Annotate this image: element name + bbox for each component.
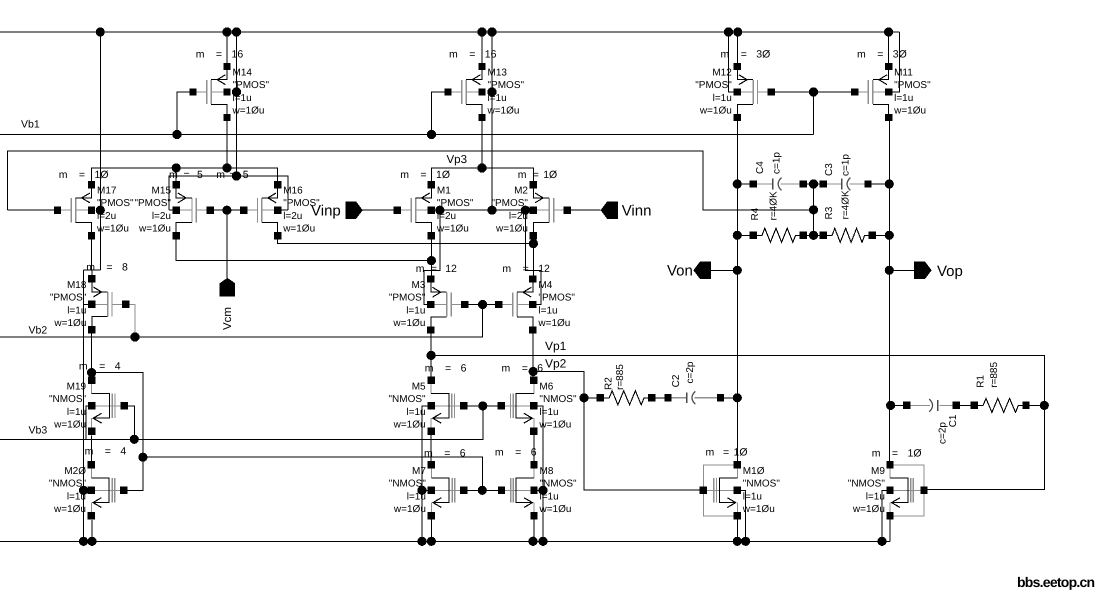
svg-text:m: m xyxy=(721,49,730,61)
svg-text:=: = xyxy=(444,448,450,460)
wire M6 source down xyxy=(533,431,535,464)
label M3 values xyxy=(389,280,426,329)
svg-text:l=2u: l=2u xyxy=(152,211,171,222)
node bulk junction M2 xyxy=(521,206,530,215)
transistor M4 xyxy=(495,275,536,333)
svg-text:1Ø: 1Ø xyxy=(543,169,557,181)
svg-text:w=1Øu: w=1Øu xyxy=(53,419,86,430)
svg-text:M3: M3 xyxy=(411,280,425,291)
wire M12 drain to vdd xyxy=(736,32,738,67)
svg-text:"PMOS": "PMOS" xyxy=(389,293,426,304)
svg-text:3Ø: 3Ø xyxy=(756,49,770,61)
svg-text:l=1u: l=1u xyxy=(406,306,425,317)
svg-text:=: = xyxy=(184,169,190,181)
svg-text:m: m xyxy=(416,263,425,275)
svg-text:"NMOS": "NMOS" xyxy=(389,478,427,489)
node R4 junction xyxy=(733,231,742,240)
capacitor C3 xyxy=(820,178,872,191)
node M1 drain junction xyxy=(427,256,436,265)
node Vb3 junction x134 xyxy=(130,435,139,444)
svg-text:w=1Øu: w=1Øu xyxy=(392,318,425,329)
svg-text:=: = xyxy=(79,169,85,181)
wire vdd drop to M17 bulk xyxy=(99,32,101,270)
wire M16 bulk stub xyxy=(278,209,288,211)
wire M4 bulk tie xyxy=(525,210,541,304)
wire M15 bulk stub xyxy=(169,209,176,211)
svg-text:M11: M11 xyxy=(894,68,913,79)
node vdd rail junction x728 xyxy=(724,27,733,36)
wire M17 source down to chain xyxy=(91,239,93,270)
svg-text:m: m xyxy=(706,447,715,459)
node R3 junction xyxy=(885,231,894,240)
node Vp2 junction xyxy=(529,367,538,376)
svg-text:=: = xyxy=(105,446,111,458)
svg-text:m: m xyxy=(424,448,433,460)
node R1C1 junction xyxy=(886,401,895,410)
svg-text:12: 12 xyxy=(445,263,457,275)
wire M3 bulk tie xyxy=(424,210,440,304)
svg-text:M16: M16 xyxy=(283,186,303,197)
node mid junction top xyxy=(809,179,818,188)
transistor M9 xyxy=(886,461,927,519)
svg-text:l=1u: l=1u xyxy=(488,93,507,104)
node M7 M8 gate junction xyxy=(478,486,487,495)
svg-text:R3: R3 xyxy=(824,206,835,219)
wire M15 source line xyxy=(176,239,431,260)
wire M12 bulk riser xyxy=(729,32,738,92)
svg-text:l=2u: l=2u xyxy=(97,211,116,222)
wire M20 source to gnd xyxy=(91,520,93,542)
svg-text:=: = xyxy=(877,49,883,61)
label M13 values xyxy=(487,68,525,117)
svg-text:r=4ØK: r=4ØK xyxy=(768,191,779,221)
node vdd rail junction x888 xyxy=(884,27,893,36)
label M12 values xyxy=(695,68,732,117)
label M11 values xyxy=(893,68,931,117)
svg-text:w=1Øu: w=1Øu xyxy=(742,504,775,515)
transistor M20 xyxy=(88,461,128,519)
wire M19 source to M20 drain xyxy=(91,435,93,464)
svg-text:"NMOS": "NMOS" xyxy=(388,394,426,405)
transistor M15 xyxy=(173,181,214,239)
wire Vb3 horizontal xyxy=(0,406,483,439)
resistor R3 xyxy=(820,228,876,242)
node tail junction xyxy=(477,163,486,172)
svg-text:w=1Øu: w=1Øu xyxy=(852,504,885,515)
svg-text:w=1Øu: w=1Øu xyxy=(539,504,572,515)
svg-text:w=1Øu: w=1Øu xyxy=(893,106,926,117)
wire R1 to Vp1 leg xyxy=(1026,404,1044,406)
svg-text:m: m xyxy=(216,169,225,181)
svg-text:8: 8 xyxy=(122,262,128,274)
svg-text:Von: Von xyxy=(667,263,693,280)
transistor M3 xyxy=(427,275,468,333)
wire M3 source down xyxy=(430,330,432,380)
svg-text:m: m xyxy=(400,169,409,181)
svg-text:=: = xyxy=(216,49,222,61)
transistor M16 xyxy=(240,181,281,239)
svg-text:m: m xyxy=(59,169,68,181)
node Vp1 junction xyxy=(427,351,436,360)
svg-text:M18: M18 xyxy=(67,280,87,291)
wire M12 M11 gate link xyxy=(771,91,855,93)
svg-text:=: = xyxy=(420,169,426,181)
svg-text:M17: M17 xyxy=(97,186,117,197)
svg-text:=: = xyxy=(741,49,747,61)
svg-text:"NMOS": "NMOS" xyxy=(539,394,577,405)
node M14 bulk junction xyxy=(232,87,241,96)
svg-text:"PMOS": "PMOS" xyxy=(50,292,87,303)
node M13 bulk junction xyxy=(487,87,496,96)
wire Von stub xyxy=(711,269,738,271)
wire M5 bulk tie left xyxy=(422,406,431,541)
svg-text:c=2p: c=2p xyxy=(937,422,948,444)
svg-text:M15: M15 xyxy=(152,186,172,197)
svg-text:Vp2: Vp2 xyxy=(545,356,567,370)
svg-text:m: m xyxy=(196,49,205,61)
label M17 values xyxy=(96,186,134,235)
svg-text:m: m xyxy=(857,49,866,61)
svg-text:Vcm: Vcm xyxy=(222,307,234,330)
svg-text:=: = xyxy=(469,49,475,61)
wire Vb2 horizontal xyxy=(0,306,483,337)
svg-text:"PMOS": "PMOS" xyxy=(233,80,270,91)
svg-text:M2: M2 xyxy=(514,186,528,197)
svg-text:6: 6 xyxy=(531,446,537,458)
svg-text:w=1Øu: w=1Øu xyxy=(436,224,469,235)
svg-text:w=1Øu: w=1Øu xyxy=(96,224,129,235)
transistor M18 xyxy=(88,275,129,333)
wire M15 M16 gate link xyxy=(210,209,244,211)
svg-text:m: m xyxy=(449,49,458,61)
wire R2 C2 link xyxy=(652,397,668,399)
wire M17 source up to Y1 xyxy=(92,168,177,181)
svg-text:C3: C3 xyxy=(824,163,835,176)
label M5 values xyxy=(388,381,426,430)
wire M4 source down xyxy=(532,330,534,380)
wire R4 left xyxy=(737,234,753,236)
wire M18 drain to M19 drain xyxy=(91,334,93,381)
svg-text:M1: M1 xyxy=(437,186,451,197)
svg-text:m: m xyxy=(85,446,94,458)
svg-text:6: 6 xyxy=(460,448,466,460)
svg-text:m: m xyxy=(502,362,511,374)
svg-text:M14: M14 xyxy=(233,68,253,79)
label M14 values xyxy=(232,68,270,117)
node M5 M6 gate junction xyxy=(478,401,487,410)
svg-text:m: m xyxy=(518,169,527,181)
svg-text:w=1Øu: w=1Øu xyxy=(495,224,528,235)
svg-text:l=1u: l=1u xyxy=(539,407,558,418)
wire C3 right xyxy=(868,183,889,185)
wire M13 source to pair sources xyxy=(481,118,483,169)
node Y1 junction M15 xyxy=(172,163,181,172)
node Von junction xyxy=(733,266,742,275)
svg-text:Vinn: Vinn xyxy=(622,203,652,220)
transistor M6 xyxy=(498,377,538,435)
svg-text:Vinp: Vinp xyxy=(311,203,341,220)
svg-text:"NMOS": "NMOS" xyxy=(540,478,578,489)
wire M11 drain to vdd xyxy=(888,32,890,67)
label M9 values xyxy=(848,466,886,515)
resistor R2 xyxy=(597,391,656,405)
svg-text:r=885: r=885 xyxy=(989,362,1000,388)
wire chain into M18 drain xyxy=(91,270,93,278)
wire M11 bulk feed xyxy=(889,32,900,92)
transistor M17 xyxy=(54,181,95,239)
wire M9 bulk to gnd xyxy=(882,490,890,541)
wire Vinn to M2 gate xyxy=(567,209,600,211)
svg-text:l=1u: l=1u xyxy=(67,491,86,502)
svg-text:12: 12 xyxy=(538,263,550,275)
svg-text:"PMOS": "PMOS" xyxy=(97,198,134,209)
node Vcm gate junction xyxy=(222,206,231,215)
node gnd rail junction x422 xyxy=(417,537,426,546)
node Von C2 junction xyxy=(733,393,742,402)
wire Y1 cascode node xyxy=(176,168,278,185)
node M2 drain junction xyxy=(529,239,538,248)
node Y1 junction M14 xyxy=(222,163,231,172)
svg-text:R1: R1 xyxy=(975,375,986,388)
node vdd rail junction x236 xyxy=(232,27,241,36)
wire R4 to mid xyxy=(803,234,813,236)
node gnd rail junction x534 xyxy=(528,537,537,546)
wire Von column xyxy=(736,118,738,465)
svg-text:M1Ø: M1Ø xyxy=(743,466,765,477)
svg-text:l=1u: l=1u xyxy=(894,93,913,104)
wire M13 drain to vdd xyxy=(481,32,483,67)
svg-text:m: m xyxy=(86,262,95,274)
transistor M2 xyxy=(530,181,571,239)
svg-text:M2Ø: M2Ø xyxy=(64,466,86,477)
node gnd rail junction x745 xyxy=(741,537,750,546)
svg-text:w=1Øu: w=1Øu xyxy=(232,106,265,117)
wire Vcm riser xyxy=(226,210,228,278)
svg-text:r=885: r=885 xyxy=(615,364,626,390)
node gnd rail junction x882 xyxy=(877,537,886,546)
svg-text:l=1u: l=1u xyxy=(233,93,252,104)
svg-text:"NMOS": "NMOS" xyxy=(848,478,886,489)
svg-text:M7: M7 xyxy=(412,466,426,477)
wire M2 drain down xyxy=(532,236,534,279)
transistor M10 xyxy=(700,461,741,519)
svg-text:l=1u: l=1u xyxy=(407,491,426,502)
node M20 bulk junction xyxy=(79,486,88,495)
svg-text:w=1Øu: w=1Øu xyxy=(487,106,520,117)
svg-text:m: m xyxy=(502,263,511,275)
svg-text:l=1u: l=1u xyxy=(406,407,425,418)
svg-text:C1: C1 xyxy=(948,414,959,427)
transistor M19 xyxy=(88,377,128,435)
wire M19 bulk right down to Vb3 xyxy=(124,406,134,439)
svg-text:Vb1: Vb1 xyxy=(21,119,40,131)
svg-text:R4: R4 xyxy=(750,207,761,220)
wire M19 gate tie left down xyxy=(86,406,92,439)
wire M1 drain down xyxy=(430,236,432,279)
wire bulk row line xyxy=(431,209,533,211)
wire R2 left stub xyxy=(584,397,600,399)
wire M13 gate to Vb1 xyxy=(432,92,449,135)
wire Vinp to M1 gate xyxy=(363,209,398,211)
port Von xyxy=(693,262,710,279)
transistor M14 xyxy=(189,63,230,121)
svg-text:=: = xyxy=(723,447,729,459)
svg-text:"PMOS": "PMOS" xyxy=(488,80,525,91)
wire Vp1 line xyxy=(431,355,1044,489)
svg-text:w=1Øu: w=1Øu xyxy=(138,224,171,235)
wire M6 bulk tie right xyxy=(534,406,543,541)
wire M20 gate stub xyxy=(84,489,92,491)
wire M10 source to gnd xyxy=(736,516,738,542)
svg-text:1Ø: 1Ø xyxy=(95,169,109,181)
svg-text:1Ø: 1Ø xyxy=(436,169,450,181)
svg-text:"PMOS": "PMOS" xyxy=(695,80,732,91)
wire M5 source down xyxy=(430,431,432,464)
node Vb1 junction x177 xyxy=(172,130,181,139)
node vdd rail junction x227 xyxy=(222,27,231,36)
node C4 junction xyxy=(733,179,742,188)
svg-text:"NMOS": "NMOS" xyxy=(49,478,87,489)
wire M13 bulk riser xyxy=(491,32,493,210)
svg-text:M19: M19 xyxy=(67,381,87,392)
transistor M5 xyxy=(427,377,467,435)
svg-text:M9: M9 xyxy=(871,466,885,477)
svg-text:l=1u: l=1u xyxy=(538,306,557,317)
svg-text:m: m xyxy=(425,362,434,374)
node vdd rail junction x100 xyxy=(96,27,105,36)
label M15 values xyxy=(134,186,171,235)
label M4 values xyxy=(537,280,575,329)
svg-text:M6: M6 xyxy=(539,381,553,392)
resistor R1 xyxy=(971,398,1030,412)
svg-text:5: 5 xyxy=(197,169,203,181)
wire C1 left stub xyxy=(889,404,907,406)
svg-text:m: m xyxy=(495,446,504,458)
port Vcm xyxy=(220,278,236,297)
svg-text:Vb3: Vb3 xyxy=(29,425,48,437)
svg-text:R2: R2 xyxy=(604,377,615,390)
node vdd rail junction x737 xyxy=(733,27,742,36)
svg-text:1Ø: 1Ø xyxy=(734,447,748,459)
wire Vp2 line xyxy=(533,372,704,491)
svg-text:=: = xyxy=(515,446,521,458)
node Vp1 R1 junction xyxy=(1040,401,1049,410)
node gnd rail junction x737 xyxy=(733,537,742,546)
wire Vop column xyxy=(888,118,890,465)
wire M19 drain over to column xyxy=(92,373,143,491)
svg-text:w=1Øu: w=1Øu xyxy=(393,419,426,430)
wire M15 drain from Y1 xyxy=(175,168,177,181)
node Vb2 junction M18 gate xyxy=(130,332,139,341)
node gnd rail junction x543 xyxy=(538,537,547,546)
node vdd rail junction x492 xyxy=(487,27,496,36)
wire R3 from mid xyxy=(814,234,824,236)
wire left bulk drop to gnd xyxy=(83,270,85,541)
svg-text:C2: C2 xyxy=(671,374,682,387)
label M20 values xyxy=(49,466,87,515)
svg-text:w=1Øu: w=1Øu xyxy=(53,318,86,329)
label M8 values xyxy=(539,466,578,515)
transistor M1 xyxy=(394,181,435,239)
node mid Vp3 junction xyxy=(809,205,818,214)
wire C4 to mid xyxy=(803,183,823,185)
label M2 values xyxy=(491,186,528,235)
node Vop junction xyxy=(885,266,894,275)
wire M8 source to gnd xyxy=(533,516,535,542)
node C3 junction xyxy=(885,179,894,188)
transistor M8 xyxy=(498,461,538,519)
svg-text:=: = xyxy=(99,360,105,372)
svg-text:m: m xyxy=(79,360,88,372)
transistor M13 xyxy=(444,63,485,121)
node M17 bulk junction xyxy=(96,206,105,215)
svg-text:16: 16 xyxy=(232,49,244,61)
svg-text:M5: M5 xyxy=(412,381,426,392)
node gnd rail junction x92 xyxy=(87,537,96,546)
wire Vop stub xyxy=(889,269,914,271)
node gnd rail junction x83 xyxy=(79,537,88,546)
node R2 junction xyxy=(579,393,588,402)
svg-text:l=1u: l=1u xyxy=(67,305,86,316)
svg-text:4: 4 xyxy=(120,446,126,458)
wire M10 bulk to gnd xyxy=(737,490,745,541)
wire M18 gate riser to Vb2 xyxy=(126,304,135,337)
svg-text:m: m xyxy=(872,448,881,460)
label M7 values xyxy=(389,466,427,515)
svg-text:l=2u: l=2u xyxy=(283,211,302,222)
label M1 values xyxy=(436,186,474,235)
svg-text:6: 6 xyxy=(537,362,543,374)
label M19 values xyxy=(49,381,87,430)
svg-text:16: 16 xyxy=(485,49,497,61)
node mid junction bottom xyxy=(809,231,818,240)
svg-text:4: 4 xyxy=(115,360,121,372)
wire C2 to Von column xyxy=(721,397,738,399)
svg-text:c=1p: c=1p xyxy=(771,152,782,174)
svg-text:=: = xyxy=(106,262,112,274)
node M19 drain junction xyxy=(87,368,96,377)
svg-text:1Ø: 1Ø xyxy=(908,448,922,460)
svg-text:w=1Øu: w=1Øu xyxy=(699,106,732,117)
port Vinn xyxy=(601,202,618,219)
node Vb1 gate junction xyxy=(809,87,818,96)
transistor M7 xyxy=(428,461,468,519)
svg-text:M8: M8 xyxy=(540,466,554,477)
node bulk junction M1 xyxy=(435,206,444,215)
node Y2 junction M14 bulk xyxy=(232,171,241,180)
wire M14 drain to vdd xyxy=(226,32,228,67)
svg-text:=: = xyxy=(533,169,539,181)
wire M17 gate from Vp3 xyxy=(8,209,58,211)
node bulk junction vdd xyxy=(487,206,496,215)
svg-text:c=1p: c=1p xyxy=(840,154,851,176)
svg-text:M12: M12 xyxy=(712,68,732,79)
wire bulk line2 to M7 M8 xyxy=(143,457,482,490)
capacitor C4 xyxy=(750,178,807,191)
svg-text:=: = xyxy=(522,362,528,374)
svg-text:M4: M4 xyxy=(538,280,552,291)
svg-text:w=1Øu: w=1Øu xyxy=(53,504,86,515)
wire C4 left xyxy=(737,183,753,185)
resistor R4 xyxy=(750,228,807,242)
port Vinp xyxy=(345,202,362,219)
node Vb1 junction x431 xyxy=(427,130,436,139)
wire mid column xyxy=(813,184,815,235)
svg-text:=: = xyxy=(229,169,235,181)
node gnd rail junction x431 xyxy=(427,537,436,546)
svg-text:Vb2: Vb2 xyxy=(29,325,48,337)
svg-text:w=1Øu: w=1Øu xyxy=(537,318,570,329)
